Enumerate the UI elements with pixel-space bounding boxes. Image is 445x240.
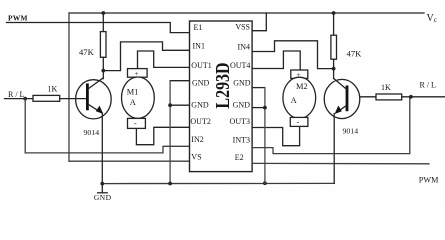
wire bottom ground rail bbox=[102, 182, 334, 184]
wire VSS to Vc bbox=[252, 13, 266, 31]
node GND stub junction left bbox=[168, 103, 172, 107]
wire M1 plus to OUT1 bbox=[138, 51, 190, 69]
node top rail left junction bbox=[101, 11, 105, 15]
svg-text:R / L: R / L bbox=[8, 90, 25, 99]
svg-text:A: A bbox=[130, 98, 136, 107]
wire OUT3 to M2 minus bbox=[252, 126, 300, 145]
wire Vc top rail bbox=[69, 12, 424, 14]
svg-text:PWM: PWM bbox=[419, 176, 439, 185]
svg-text:IN1: IN1 bbox=[193, 42, 205, 51]
wire OUT4 to M2 plus bbox=[252, 51, 300, 70]
transistor Q1 9014 left bbox=[76, 78, 112, 119]
svg-text:-: - bbox=[134, 119, 137, 128]
svg-text:GND: GND bbox=[233, 100, 251, 109]
svg-text:47K: 47K bbox=[347, 48, 363, 58]
node rail GND-left junction bbox=[168, 182, 172, 186]
op IC L293D box bbox=[190, 21, 253, 172]
svg-text:M2: M2 bbox=[296, 82, 308, 91]
svg-text:GND: GND bbox=[233, 79, 251, 88]
node rail left end bbox=[100, 182, 104, 186]
svg-text:1K: 1K bbox=[48, 85, 58, 94]
node rail GND-right junction bbox=[263, 181, 267, 185]
svg-text:OUT1: OUT1 bbox=[191, 61, 211, 70]
svg-text:GND: GND bbox=[192, 79, 210, 88]
node R/L junction right bbox=[409, 95, 413, 99]
wire left Vc rail down to VS bbox=[68, 13, 70, 161]
wire GND pins left bbox=[170, 80, 189, 82]
wire GND pins right bbox=[252, 87, 265, 89]
svg-text:OUT3: OUT3 bbox=[230, 117, 250, 126]
node collector junction left bbox=[101, 69, 105, 73]
ground symbol bbox=[98, 184, 108, 193]
svg-text:INT3: INT3 bbox=[233, 135, 250, 144]
wire PWM to E1 bbox=[7, 23, 190, 33]
wire emitter left down bbox=[101, 113, 103, 184]
resistor 47K right bbox=[331, 35, 337, 59]
node top rail right junction bbox=[332, 11, 336, 15]
node GND stub junction right bbox=[263, 106, 267, 110]
wire M1 minus to OUT2 bbox=[136, 127, 189, 144]
svg-text:VS: VS bbox=[191, 152, 201, 161]
node R/L junction left bbox=[23, 97, 27, 101]
svg-text:-: - bbox=[297, 117, 300, 126]
motor M2 bbox=[283, 70, 316, 126]
svg-text:47K: 47K bbox=[79, 47, 95, 57]
wire emitter right down bbox=[333, 114, 335, 184]
svg-text:OUT2: OUT2 bbox=[190, 117, 210, 126]
svg-text:A: A bbox=[291, 96, 297, 105]
svg-text:GND: GND bbox=[94, 193, 112, 202]
svg-text:GND: GND bbox=[191, 100, 209, 109]
wire 47K left top lead bbox=[102, 13, 104, 32]
motor M1 bbox=[121, 69, 154, 129]
svg-text:PWM: PWM bbox=[8, 14, 28, 23]
wire IN4 to collector right bbox=[252, 41, 334, 69]
svg-text:+: + bbox=[296, 70, 300, 79]
wire R/L input left bbox=[5, 98, 34, 100]
wire 47K right top lead bbox=[333, 13, 335, 35]
svg-text:E1: E1 bbox=[194, 23, 203, 32]
wire E2 PWM line bbox=[252, 162, 429, 164]
wire R/L input right bbox=[402, 96, 445, 98]
node collector junction right bbox=[332, 67, 336, 71]
wire R/L to IN2 bbox=[25, 99, 189, 153]
wire 1K to base left bbox=[60, 98, 86, 100]
wire INT3 to R/L right bbox=[252, 97, 410, 154]
svg-text:L293D: L293D bbox=[211, 62, 233, 108]
wire collector to IN1 bbox=[103, 42, 189, 71]
wire base right bbox=[360, 96, 376, 98]
svg-text:IN4: IN4 bbox=[238, 42, 250, 51]
svg-text:9014: 9014 bbox=[343, 126, 359, 135]
wire 47K left bottom lead to collector bbox=[102, 57, 104, 78]
resistor 47K left bbox=[100, 32, 106, 58]
svg-text:M1: M1 bbox=[127, 88, 139, 97]
wire 47K right bottom lead bbox=[333, 59, 335, 78]
transistor Q2 9014 right bbox=[324, 78, 360, 118]
svg-text:1K: 1K bbox=[381, 83, 391, 92]
wire VS line bbox=[69, 160, 190, 162]
resistor 1K right bbox=[376, 94, 402, 100]
svg-text:9014: 9014 bbox=[84, 128, 100, 137]
svg-text:IN2: IN2 bbox=[191, 135, 203, 144]
svg-text:Vc: Vc bbox=[427, 13, 438, 24]
resistor 1K left bbox=[33, 95, 60, 101]
svg-text:+: + bbox=[134, 69, 138, 78]
svg-text:E2: E2 bbox=[235, 153, 244, 162]
svg-text:VSS: VSS bbox=[235, 23, 250, 32]
svg-text:R / L: R / L bbox=[420, 80, 437, 89]
